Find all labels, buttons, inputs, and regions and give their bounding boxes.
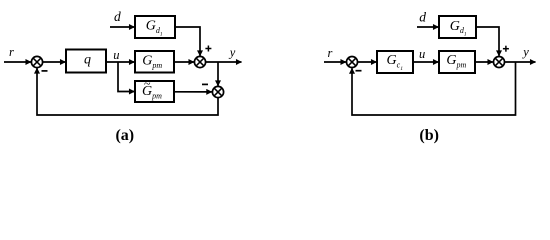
wire branch from y down into J3 (a) bbox=[217, 62, 219, 86]
block q (a) bbox=[66, 50, 106, 73]
svg-text:q: q bbox=[84, 52, 91, 67]
minus sign at feedback input of J1 (a) bbox=[42, 70, 48, 72]
wire y output arrow (a) bbox=[206, 61, 242, 63]
block Gpm-tilde (a) bbox=[135, 77, 174, 102]
wire J1 to Gc1 (b) bbox=[358, 61, 377, 63]
wire r input arrow into summing junction (b) bbox=[324, 61, 346, 63]
wire branch from u down to Gpm-tilde (a) bbox=[118, 62, 135, 92]
block Gpm (b) bbox=[439, 51, 475, 73]
wire q to Gpm with node u (a) bbox=[106, 61, 135, 63]
wire feedback from J3 to J1 (a) bbox=[37, 68, 218, 115]
svg-text:y: y bbox=[521, 45, 529, 59]
wire Gpm to summing junction J2 (a) bbox=[174, 61, 194, 63]
svg-text:d: d bbox=[419, 10, 426, 25]
summing junction J1 (b) bbox=[347, 57, 358, 68]
wire y output arrow (b) bbox=[505, 61, 536, 63]
svg-text:r: r bbox=[9, 45, 14, 59]
wire Gc1 to Gpm with node u (b) bbox=[413, 61, 439, 63]
svg-text:u: u bbox=[419, 47, 425, 61]
svg-text:(a): (a) bbox=[115, 127, 134, 144]
wire Gpm-tilde to J3 (a) bbox=[174, 91, 212, 93]
wire d input arrow into Gd1 (b) bbox=[417, 26, 439, 28]
wire d input arrow into Gd1 (a) bbox=[110, 26, 135, 28]
summing junction J2 (a) bbox=[194, 56, 205, 67]
wire Gd1 output down into J2 (a) bbox=[175, 27, 200, 56]
block Gd1 (b) bbox=[439, 16, 476, 38]
plus sign at disturbance input of J2 (b) bbox=[503, 46, 509, 52]
minus sign at feedback input of J1 (b) bbox=[356, 70, 362, 72]
svg-text:u: u bbox=[113, 48, 119, 62]
wire feedback from y branch to J1 (b) bbox=[352, 62, 516, 115]
plus sign at disturbance input of J2 (a) bbox=[205, 46, 211, 52]
summing junction J3 (a) bbox=[212, 86, 223, 97]
summing junction J2 (b) bbox=[494, 57, 505, 68]
block Gpm (a) bbox=[135, 51, 174, 73]
wire Gd1 output down into J2 (b) bbox=[476, 27, 499, 56]
summing junction J1 (a) bbox=[31, 56, 42, 67]
svg-text:y: y bbox=[228, 45, 236, 59]
wire Gpm to summing junction J2 (b) bbox=[475, 61, 493, 63]
svg-text:d: d bbox=[114, 9, 121, 24]
block Gc1 (b) bbox=[377, 51, 413, 73]
wire J1 to block q (a) bbox=[43, 61, 66, 63]
wire r input arrow into summing junction (a) bbox=[4, 61, 31, 63]
svg-text:(b): (b) bbox=[419, 127, 439, 144]
minus sign at Gpm-tilde input of J3 (a) bbox=[202, 83, 208, 85]
block Gd1 (a) bbox=[135, 16, 175, 38]
svg-text:~: ~ bbox=[144, 77, 151, 91]
svg-text:r: r bbox=[328, 46, 333, 60]
